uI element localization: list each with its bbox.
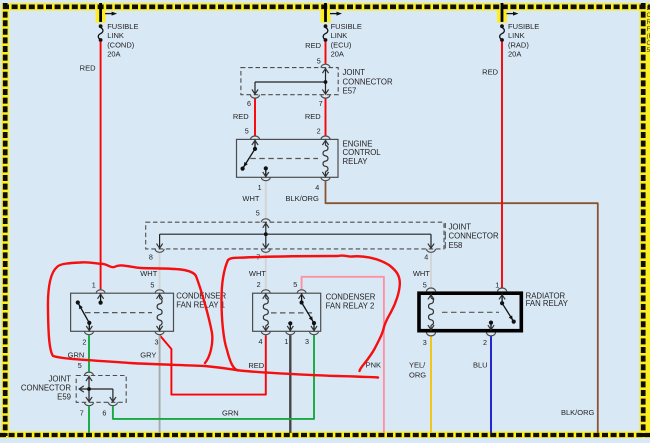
svg-text:BLU: BLU	[473, 361, 488, 370]
svg-text:FAN RELAY 1: FAN RELAY 1	[176, 300, 225, 309]
svg-text:CONNECTOR: CONNECTOR	[343, 77, 393, 86]
svg-text:(R: (R	[647, 33, 650, 40]
svg-text:20A: 20A	[331, 50, 344, 59]
svg-text:RED: RED	[482, 68, 498, 77]
svg-text:5: 5	[317, 57, 321, 66]
svg-text:1: 1	[258, 183, 262, 192]
svg-text:JOINT: JOINT	[48, 375, 71, 384]
svg-text:RED: RED	[248, 361, 264, 370]
svg-text:8: 8	[149, 253, 153, 262]
svg-text:RED: RED	[80, 64, 96, 73]
svg-text:5: 5	[245, 127, 249, 136]
svg-text:WHT: WHT	[140, 269, 157, 278]
svg-text:CONDENSER: CONDENSER	[326, 293, 376, 302]
svg-text:5: 5	[256, 209, 260, 218]
svg-text:E59: E59	[57, 393, 71, 402]
svg-text:7: 7	[319, 99, 323, 108]
svg-text:FUSIBLE: FUSIBLE	[508, 22, 539, 31]
svg-text:LINK: LINK	[331, 31, 348, 40]
svg-text:1: 1	[92, 280, 96, 289]
svg-text:5: 5	[78, 361, 82, 370]
svg-text:2: 2	[317, 127, 321, 136]
svg-text:RE: RE	[647, 19, 650, 26]
svg-text:BLK/ORG: BLK/ORG	[285, 194, 319, 203]
svg-text:LINK: LINK	[107, 31, 124, 40]
svg-text:E58: E58	[449, 241, 463, 250]
svg-text:CONNECTOR: CONNECTOR	[21, 383, 71, 392]
svg-text:2: 2	[257, 280, 261, 289]
svg-text:2: 2	[483, 338, 487, 347]
svg-text:4: 4	[424, 253, 428, 262]
svg-text:CO: CO	[647, 40, 650, 47]
svg-text:RELAY: RELAY	[343, 157, 369, 166]
svg-text:RED: RED	[305, 112, 321, 121]
svg-text:6: 6	[247, 99, 251, 108]
svg-text:LINK: LINK	[508, 31, 525, 40]
svg-text:FUSIBLE: FUSIBLE	[331, 22, 362, 31]
svg-text:6: 6	[102, 409, 106, 418]
svg-text:FU: FU	[647, 26, 650, 33]
svg-text:3: 3	[423, 338, 427, 347]
svg-text:RED: RED	[305, 41, 321, 50]
svg-text:E57: E57	[343, 87, 357, 96]
svg-text:2: 2	[82, 337, 86, 346]
svg-text:JOINT: JOINT	[449, 222, 472, 231]
svg-text:FUSIBLE: FUSIBLE	[107, 22, 138, 31]
svg-text:3: 3	[305, 337, 309, 346]
svg-text:CO: CO	[647, 12, 650, 19]
svg-text:WHT: WHT	[249, 269, 266, 278]
svg-text:RED: RED	[233, 112, 249, 121]
svg-text:(ECU): (ECU)	[331, 40, 352, 49]
svg-text:FAN RELAY 2: FAN RELAY 2	[326, 302, 375, 311]
svg-text:YEL/: YEL/	[409, 361, 426, 370]
svg-text:5: 5	[647, 47, 650, 54]
svg-text:FAN RELAY: FAN RELAY	[526, 299, 569, 308]
svg-text:CONNECTOR: CONNECTOR	[449, 232, 499, 241]
svg-text:4: 4	[315, 183, 319, 192]
svg-text:7: 7	[80, 409, 84, 418]
svg-text:5: 5	[293, 280, 297, 289]
svg-text:3: 3	[155, 337, 159, 346]
svg-text:BLK/ORG: BLK/ORG	[561, 408, 595, 417]
svg-text:GRY: GRY	[140, 350, 156, 359]
svg-text:ORG: ORG	[409, 371, 426, 380]
svg-text:20A: 20A	[107, 50, 120, 59]
svg-text:GRN: GRN	[222, 408, 239, 417]
svg-text:1: 1	[495, 280, 499, 289]
svg-text:WHT: WHT	[242, 194, 259, 203]
svg-text:(COND): (COND)	[107, 40, 135, 49]
svg-text:WHT: WHT	[413, 269, 430, 278]
svg-text:PNK: PNK	[366, 361, 381, 370]
svg-text:4: 4	[259, 337, 263, 346]
svg-text:JOINT: JOINT	[343, 68, 366, 77]
svg-text:BL: BL	[647, 5, 650, 12]
svg-text:5: 5	[423, 280, 427, 289]
svg-text:1: 1	[284, 337, 288, 346]
svg-text:20A: 20A	[508, 50, 521, 59]
svg-text:(RAD): (RAD)	[508, 40, 529, 49]
svg-text:5: 5	[150, 280, 154, 289]
